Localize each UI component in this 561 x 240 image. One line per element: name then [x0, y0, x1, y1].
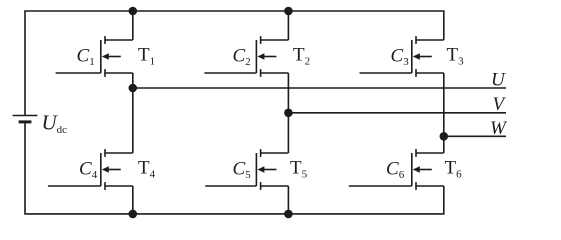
svg-text:T4: T4 — [138, 158, 156, 181]
svg-text:T5: T5 — [290, 158, 308, 181]
transistor T3 arrow — [413, 53, 432, 60]
node V junction dot — [284, 109, 293, 118]
transistor T6 emitter pin tick — [415, 182, 417, 190]
transistor T3 emitter lead wire — [416, 72, 444, 74]
svg-text:T3: T3 — [447, 45, 465, 68]
junction dot bottom bus / leg B — [284, 210, 293, 219]
transistor T4 collector lead wire — [105, 152, 133, 154]
transistor T5 emitter pin tick — [260, 182, 262, 190]
svg-text:T6: T6 — [445, 158, 463, 181]
svg-text:Udc: Udc — [42, 111, 68, 136]
svg-text:C6: C6 — [386, 158, 405, 181]
transistor T5 arrow — [257, 166, 276, 173]
transistor T1 gate bar — [100, 40, 102, 73]
wire: phase U output — [133, 87, 506, 89]
svg-text:T1: T1 — [138, 45, 155, 68]
battery Udc negative plate — [19, 120, 32, 123]
transistor T3 emitter pin tick — [415, 69, 417, 77]
svg-text:C4: C4 — [79, 158, 98, 181]
transistor T5 collector pin tick — [260, 149, 262, 157]
node W junction dot — [440, 132, 449, 141]
transistor T5 collector lead wire — [261, 152, 289, 154]
svg-text:C5: C5 — [233, 158, 252, 181]
wire: leg B middle (T2 emitter to node V to T5 collector) — [287, 73, 289, 153]
transistor T6 emitter lead wire — [416, 185, 444, 187]
transistor T2 emitter pin tick — [260, 69, 262, 77]
wire: phase V output — [288, 112, 506, 114]
transistor T3 gate bar — [411, 40, 413, 73]
svg-text:C3: C3 — [391, 45, 410, 68]
transistor T1 collector pin tick — [104, 36, 106, 44]
svg-text:C1: C1 — [77, 45, 95, 68]
svg-text:C2: C2 — [233, 45, 251, 68]
transistor T6 gate lead wire — [349, 185, 412, 187]
transistor T4 gate lead wire — [48, 185, 101, 187]
transistor T2 collector lead wire — [261, 39, 289, 41]
battery Udc positive plate — [13, 115, 38, 117]
transistor T2 gate bar — [255, 40, 257, 73]
svg-text:U: U — [491, 70, 506, 91]
junction dot top bus / leg A — [129, 7, 138, 16]
transistor T4 gate bar — [100, 153, 102, 186]
transistor T2 collector pin tick — [260, 36, 262, 44]
svg-text:V: V — [493, 94, 507, 115]
wire: positive DC bus (battery + up and across top to T3 collector) — [25, 11, 444, 115]
junction dot bottom bus / leg A — [129, 210, 138, 219]
junction dot top bus / leg B — [284, 7, 293, 16]
wire: leg A upper (top bus to T1 collector) — [132, 11, 134, 40]
wire: leg B upper (top bus to T2 collector) — [287, 11, 289, 40]
transistor T4 arrow — [102, 166, 121, 173]
transistor T2 arrow — [257, 53, 276, 60]
transistor T3 collector lead wire — [416, 39, 444, 41]
transistor T6 gate bar — [411, 153, 413, 186]
wire: leg A lower (T4 emitter to bottom bus) — [132, 186, 134, 214]
transistor T3 collector pin tick — [415, 36, 417, 44]
transistor T6 collector pin tick — [415, 149, 417, 157]
transistor T1 emitter lead wire — [105, 72, 133, 74]
wire: leg A middle (T1 emitter to node U to T4 collector) — [132, 73, 134, 153]
wire: leg B lower (T5 emitter to bottom bus) — [287, 186, 289, 214]
node U junction dot — [129, 84, 138, 93]
svg-text:T2: T2 — [293, 45, 310, 68]
transistor T4 collector pin tick — [104, 149, 106, 157]
transistor T3 gate lead wire — [360, 72, 412, 74]
transistor T1 collector lead wire — [105, 39, 133, 41]
svg-text:W: W — [490, 118, 508, 139]
wire: phase W output — [444, 135, 506, 137]
transistor T4 emitter pin tick — [104, 182, 106, 190]
wire: leg C middle (T3 emitter to node W to T6 collector) — [443, 73, 445, 153]
transistor T6 collector lead wire — [416, 152, 444, 154]
transistor T1 emitter pin tick — [104, 69, 106, 77]
transistor T5 gate bar — [255, 153, 257, 186]
transistor T2 emitter lead wire — [261, 72, 289, 74]
transistor T6 arrow — [413, 166, 432, 173]
transistor T5 emitter lead wire — [261, 185, 289, 187]
transistor T1 arrow — [102, 53, 121, 60]
transistor T4 emitter lead wire — [105, 185, 133, 187]
transistor T1 gate lead wire — [56, 72, 101, 74]
wire: negative DC bus (battery - down and across bottom to T6 emitter) — [25, 122, 444, 214]
transistor T2 gate lead wire — [204, 72, 256, 74]
transistor T5 gate lead wire — [205, 185, 256, 187]
